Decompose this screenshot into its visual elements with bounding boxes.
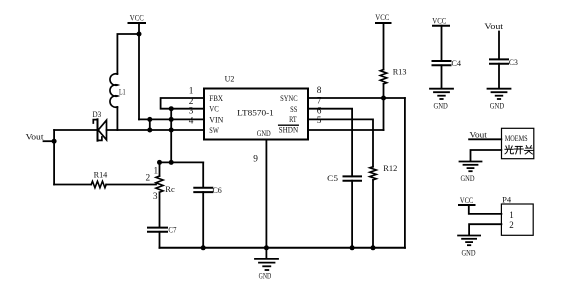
svg-text:D3: D3: [93, 110, 102, 119]
resistor R12: [370, 164, 398, 248]
power symbol VCC (C4): [432, 17, 449, 61]
net label Vout: [26, 132, 54, 141]
wire: ground rail: [160, 247, 405, 249]
svg-text:VCC: VCC: [432, 17, 446, 26]
svg-text:VCC: VCC: [130, 13, 144, 22]
node: compensation dot A: [157, 160, 162, 165]
svg-text:4: 4: [189, 117, 194, 127]
svg-text:P4: P4: [502, 196, 511, 205]
resistor R13: [380, 23, 406, 98]
wire: SW row (pin 4): [107, 129, 204, 131]
wire: VIN to SW tie: [149, 119, 151, 130]
node: VIN row dot A: [147, 117, 152, 122]
svg-text:R13: R13: [393, 67, 407, 76]
svg-text:SHDN: SHDN: [279, 125, 299, 135]
wire: RT row (pin 6): [308, 119, 373, 166]
block MOEMS optical switch: [502, 128, 534, 158]
wire: VIN row (pin 3): [139, 118, 203, 120]
node: VC row dot: [169, 106, 174, 111]
svg-text:U2: U2: [225, 74, 235, 83]
svg-text:SYNC: SYNC: [280, 93, 298, 103]
wire: SYNC junction down to SHDN row: [383, 98, 385, 130]
svg-text:SW: SW: [209, 125, 219, 135]
wire: VC column down to compensation node: [170, 109, 172, 163]
svg-text:C3: C3: [509, 58, 518, 67]
wire: VCC column down to VIN row: [138, 34, 140, 119]
svg-text:R14: R14: [94, 171, 108, 180]
inductor L1: [110, 74, 126, 130]
node: R13/SYNC/SHDN junction: [381, 96, 386, 101]
wire: P4 pin 2 to ground: [469, 224, 501, 235]
capacitor C6: [194, 162, 222, 247]
node: rail dot C6: [201, 245, 206, 250]
wire: Vout node to D3 cathode: [54, 129, 97, 131]
power symbol VCC (L1 supply): [129, 13, 146, 34]
svg-text:MOEMS: MOEMS: [505, 134, 528, 143]
svg-text:5: 5: [317, 116, 322, 126]
svg-text:GND: GND: [490, 102, 504, 111]
capacitor C7: [148, 225, 177, 247]
capacitor C5: [327, 174, 361, 248]
svg-text:C4: C4: [451, 59, 461, 68]
label 关 (drawn glyph): [524, 146, 533, 154]
potentiometer Rc: [156, 162, 175, 227]
svg-text:8: 8: [317, 86, 322, 96]
connector P4: [501, 196, 533, 236]
svg-text:Vout: Vout: [470, 131, 488, 140]
svg-text:9: 9: [253, 154, 258, 164]
svg-text:1: 1: [509, 210, 514, 220]
power symbol VCC (P4): [459, 196, 475, 205]
power symbol VCC (R13 pull-up): [375, 13, 390, 23]
svg-text:VC: VC: [209, 104, 219, 114]
svg-text:2: 2: [146, 174, 151, 184]
label 光 (drawn glyph): [505, 145, 513, 154]
node: rail dot GND: [264, 245, 269, 250]
ground (P4): [458, 236, 480, 258]
wire: SHDN row (pin 5): [308, 129, 384, 131]
node: compensation dot B: [169, 160, 174, 165]
wire: compensation node horizontal: [160, 161, 204, 163]
svg-text:C6: C6: [213, 186, 222, 195]
label 开 (drawn glyph): [514, 146, 523, 154]
svg-text:2: 2: [509, 220, 514, 230]
wire: VCC junction to L1 top: [117, 34, 139, 74]
svg-text:Vout: Vout: [26, 132, 45, 141]
svg-text:C7: C7: [168, 225, 176, 234]
node: Vout tap dot: [52, 139, 57, 144]
svg-text:FBX: FBX: [209, 93, 223, 103]
svg-text:3: 3: [189, 107, 194, 117]
capacitor C4: [433, 59, 462, 88]
svg-text:GND: GND: [462, 248, 476, 257]
wire: FBX row looped to VC row (pins 1-2): [161, 98, 203, 109]
svg-text:SS: SS: [290, 104, 297, 114]
ground (MOEMS): [460, 162, 482, 183]
svg-text:R12: R12: [383, 164, 397, 173]
svg-text:C5: C5: [327, 174, 338, 183]
capacitor C3: [490, 32, 518, 89]
IC U2 LT8570-1: [204, 74, 308, 139]
svg-text:2: 2: [189, 97, 194, 107]
resistor R14: [54, 171, 156, 188]
svg-text:GND: GND: [461, 174, 475, 183]
svg-text:GND: GND: [434, 102, 448, 111]
node: rail dot C5: [350, 245, 355, 250]
wire: SYNC extension down to ground rail: [404, 98, 406, 248]
svg-text:LT8570-1: LT8570-1: [237, 108, 274, 118]
node: SW row dot A: [147, 128, 152, 133]
ground (C3): [488, 89, 511, 111]
wire: U2 GND pin 9 to ground rail: [265, 140, 267, 248]
node: rail dot R12: [371, 245, 376, 250]
ground (C4): [430, 89, 453, 111]
svg-text:VIN: VIN: [209, 114, 223, 124]
ground (main rail): [255, 248, 278, 281]
svg-text:GND: GND: [259, 271, 272, 280]
svg-text:VCC: VCC: [375, 13, 389, 22]
svg-text:GND: GND: [257, 129, 271, 138]
wire: SS row (pin 7): [308, 109, 352, 177]
svg-text:RT: RT: [289, 114, 297, 124]
wire: SYNC row (pin 8): [308, 97, 405, 99]
diode D3 (Schottky): [93, 110, 107, 141]
net label Vout (MOEMS input): [469, 131, 501, 140]
svg-text:3: 3: [153, 192, 158, 202]
node: VCC branch junction: [137, 32, 142, 37]
svg-text:1: 1: [189, 87, 194, 97]
svg-text:Vout: Vout: [484, 22, 504, 31]
wire: MOEMS ground pin: [471, 150, 502, 161]
svg-text:Rc: Rc: [165, 185, 175, 194]
svg-text:L1: L1: [119, 87, 126, 96]
svg-text:VCC: VCC: [460, 196, 473, 205]
svg-text:1: 1: [154, 166, 159, 176]
node: VIN row dot B: [169, 117, 174, 122]
node: SW row dot B: [169, 128, 174, 133]
wire: VCC to P4 pin 1: [469, 205, 502, 214]
wire: Vout column: [53, 130, 55, 185]
